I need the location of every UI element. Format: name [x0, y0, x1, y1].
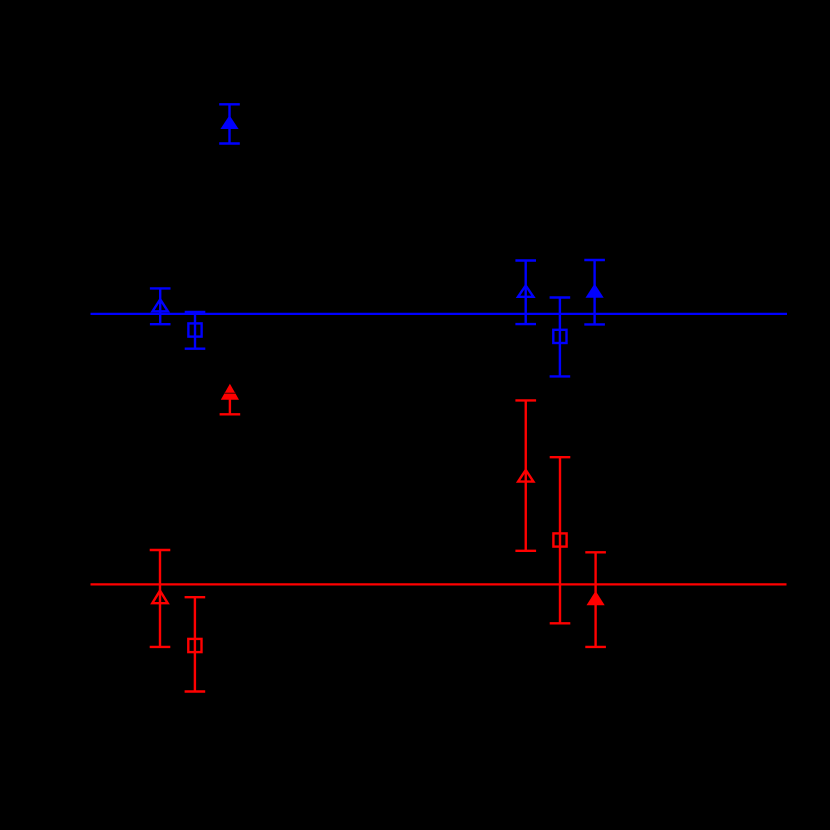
red filled triangle marker 7 (tall, with dark split line) — [221, 384, 239, 400]
red horizontal reference line — [91, 583, 787, 585]
red open triangle marker 8 — [152, 591, 167, 604]
red error bar 10 (open triangle, x=525.75) — [515, 400, 536, 550]
blue filled triangle marker 1 — [220, 115, 238, 129]
blue filled triangle marker 6 — [586, 284, 604, 298]
blue error bar 2 (open triangle, x=160.2) — [150, 288, 171, 324]
red open triangle marker 10 — [518, 470, 533, 482]
blue open triangle marker 4 — [518, 286, 533, 297]
blue error bar 6 (filled triangle, x=594.6) — [584, 260, 605, 324]
blue error bar 3 (open square, x=195) — [185, 312, 206, 349]
blue error bar 1 (filled triangle, x=229.5) — [219, 104, 240, 143]
blue error bar 4 (open triangle, x=525.7) — [515, 261, 536, 325]
red error bar 8 (open triangle, x=160) — [150, 550, 171, 647]
dark split line over red triangle 7 — [224, 392, 235, 394]
red error bar 12 (filled triangle, x=595.6) — [585, 552, 606, 647]
blue horizontal reference line — [91, 313, 788, 315]
blue open triangle marker 2 — [153, 299, 168, 311]
red error bar 9 (open square, x=194.9) — [185, 597, 206, 691]
blue open square marker 3 — [188, 323, 201, 336]
red error bar 11 (open square, x=560) — [550, 457, 571, 623]
red error bar 7 (filled triangle, x=229.9) — [220, 396, 241, 414]
red open square marker 9 — [188, 639, 201, 652]
blue error bar 5 (open square, x=559.9) — [550, 298, 571, 377]
blue open square marker 5 — [553, 330, 566, 343]
red filled triangle marker 12 — [587, 591, 605, 605]
red open square marker 11 — [553, 533, 566, 546]
